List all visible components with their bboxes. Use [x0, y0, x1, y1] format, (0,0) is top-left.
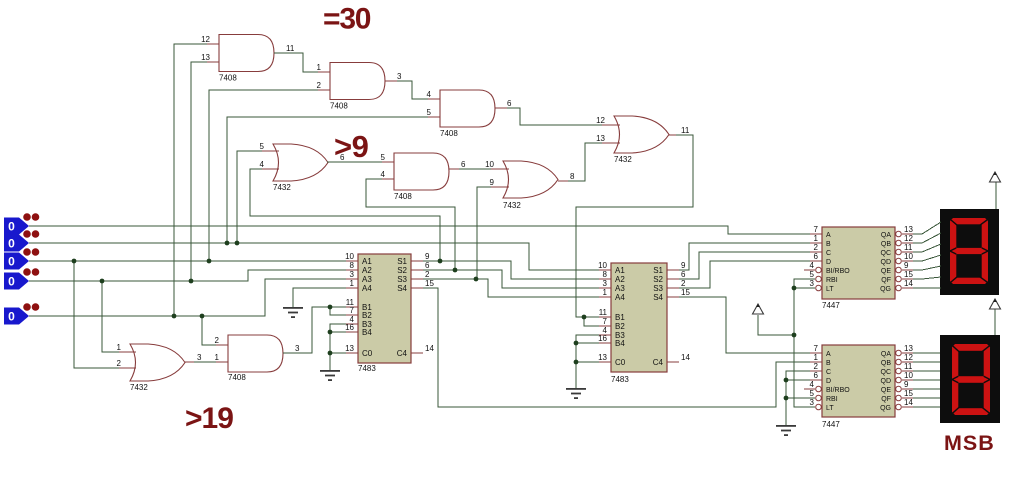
- wire U4 S2 to U5 pin C: [679, 252, 810, 279]
- svg-text:1: 1: [350, 279, 355, 288]
- svg-text:S3: S3: [653, 284, 663, 293]
- svg-text:QF: QF: [881, 277, 891, 284]
- svg-text:1: 1: [814, 353, 819, 362]
- junction J13: [328, 330, 333, 335]
- junction J7: [172, 314, 177, 319]
- svg-text:6: 6: [425, 261, 430, 270]
- svg-text:4: 4: [260, 160, 265, 169]
- svg-text:5: 5: [810, 270, 815, 279]
- svg-text:>9: >9: [334, 129, 369, 164]
- svg-text:1: 1: [814, 234, 819, 243]
- junction J4: [207, 259, 212, 264]
- svg-text:13: 13: [201, 53, 210, 62]
- svg-text:7408: 7408: [394, 192, 412, 201]
- power arrow (display DS1): [990, 172, 1001, 182]
- svg-text:11: 11: [681, 126, 690, 135]
- svg-text:7432: 7432: [503, 201, 521, 210]
- junction J1: [225, 241, 230, 246]
- svg-text:=30: =30: [323, 3, 371, 36]
- wire U3 B3/B4/C0 to ground: [330, 324, 346, 370]
- ground (U4 B/C0 chain): [566, 388, 586, 399]
- OR gate U2:A 7432 (=30 output): [596, 116, 690, 164]
- svg-text:12: 12: [904, 353, 913, 362]
- svg-text:QD: QD: [881, 378, 892, 385]
- svg-text:13: 13: [598, 353, 607, 362]
- svg-text:13: 13: [904, 344, 913, 353]
- OR gate U2:C 7432: [485, 160, 575, 210]
- svg-text:8: 8: [603, 270, 608, 279]
- input pin P1 state dots: [23, 213, 39, 221]
- svg-text:QD: QD: [881, 259, 892, 266]
- wire U3 S1 to U4 A2: [423, 261, 599, 279]
- wire rail P1 to U5 pin A: [29, 226, 810, 234]
- svg-text:C: C: [826, 250, 831, 257]
- svg-text:A: A: [826, 351, 831, 358]
- svg-text:QA: QA: [881, 232, 891, 239]
- junction J16: [574, 341, 579, 346]
- svg-text:7432: 7432: [614, 155, 632, 164]
- svg-text:3: 3: [295, 344, 300, 353]
- svg-text:7408: 7408: [330, 102, 348, 111]
- svg-text:D: D: [826, 259, 831, 266]
- wires U6 QA-QG to display DS2: [913, 353, 940, 407]
- junction J19: [792, 333, 797, 338]
- junction J17: [574, 360, 579, 365]
- wire U4 B2 branch: [584, 317, 599, 326]
- svg-text:15: 15: [904, 270, 913, 279]
- OR gate U2:D 7432 (>19): [117, 343, 202, 392]
- svg-text:A2: A2: [615, 275, 625, 284]
- junction J21: [784, 396, 789, 401]
- junction J15: [582, 315, 587, 320]
- svg-text:7: 7: [350, 306, 355, 315]
- svg-text:16: 16: [598, 334, 607, 343]
- svg-text:1: 1: [215, 353, 220, 362]
- svg-text:13: 13: [904, 225, 913, 234]
- svg-text:S2: S2: [397, 266, 407, 275]
- svg-text:6: 6: [814, 252, 819, 261]
- svg-text:QF: QF: [881, 396, 891, 403]
- svg-text:LT: LT: [826, 405, 834, 412]
- svg-text:3: 3: [197, 353, 202, 362]
- 7-segment display DS2 (MSB): [940, 335, 1000, 423]
- wire power to display DS1: [995, 181, 997, 209]
- input pin P5 state dots: [23, 303, 39, 311]
- svg-text:6: 6: [461, 160, 466, 169]
- svg-text:5: 5: [810, 389, 815, 398]
- svg-text:8: 8: [570, 172, 575, 181]
- wire U1:A out to U1:B pin 1: [274, 53, 318, 72]
- ground (U3 B/C0 chain): [320, 370, 340, 381]
- wire AND >19 pin 2 to P5 rail: [202, 316, 216, 345]
- wire U5 RBI/LT to power and U6 LT: [758, 279, 815, 407]
- wire U3 S2 to U1:D pin 4: [366, 179, 455, 270]
- svg-text:7: 7: [814, 225, 819, 234]
- BCD to 7-seg decoder U5 7447: [804, 225, 913, 310]
- 7-segment display DS1: [940, 209, 999, 295]
- svg-text:7408: 7408: [440, 129, 458, 138]
- svg-text:14: 14: [904, 279, 913, 288]
- svg-text:9: 9: [490, 178, 495, 187]
- junction J3: [72, 259, 77, 264]
- svg-text:14: 14: [425, 344, 434, 353]
- svg-text:0: 0: [8, 220, 15, 234]
- svg-text:6: 6: [507, 99, 512, 108]
- wire U3 A4 to ground: [293, 288, 346, 307]
- svg-text:9: 9: [681, 261, 686, 270]
- wire P2 rail to U2:B pin 5: [237, 151, 262, 243]
- svg-text:QB: QB: [881, 241, 891, 248]
- junction J12: [328, 305, 333, 310]
- svg-text:7408: 7408: [228, 373, 246, 382]
- svg-text:A2: A2: [362, 266, 372, 275]
- svg-text:2: 2: [117, 359, 122, 368]
- svg-text:4: 4: [810, 261, 815, 270]
- power arrow (U5/U6 LT): [753, 304, 764, 314]
- wire OR >19 pin 2 to P3 rail: [74, 261, 119, 368]
- wire rail P4 to U3 pin A2: [29, 270, 346, 281]
- svg-text:2: 2: [215, 336, 220, 345]
- svg-text:4: 4: [810, 380, 815, 389]
- svg-text:15: 15: [904, 389, 913, 398]
- svg-text:S2: S2: [653, 275, 663, 284]
- svg-text:12: 12: [596, 116, 605, 125]
- logic input pin P2 (state 0): [4, 235, 29, 252]
- svg-text:3: 3: [397, 72, 402, 81]
- input pin P3 state dots: [23, 248, 39, 256]
- svg-text:9: 9: [425, 252, 430, 261]
- wire P4 rail to U1:A pin 13: [191, 62, 207, 281]
- junction J2: [235, 241, 240, 246]
- svg-text:0: 0: [8, 310, 15, 324]
- wire U4 B3/B4/C0 to ground: [576, 335, 599, 388]
- svg-text:12: 12: [201, 35, 210, 44]
- label =30: [323, 3, 371, 36]
- svg-text:15: 15: [681, 288, 690, 297]
- OR gate U2:B 7432 (>9): [260, 142, 345, 192]
- svg-text:A4: A4: [615, 293, 625, 302]
- svg-text:A3: A3: [615, 284, 625, 293]
- svg-text:6: 6: [681, 270, 686, 279]
- svg-text:2: 2: [425, 270, 430, 279]
- svg-text:A1: A1: [362, 257, 372, 266]
- logic input pin P4 (state 0): [4, 273, 29, 290]
- wire rail P3 to U3 pin A1: [29, 260, 346, 262]
- svg-text:B2: B2: [615, 322, 625, 331]
- wire rail P2 to U4 pin A1: [29, 243, 599, 270]
- svg-text:QA: QA: [881, 351, 891, 358]
- label &gt;19: [185, 402, 233, 435]
- wire U1:C out to U2:A pin 12: [507, 108, 602, 125]
- wire U3 B2 branch: [330, 307, 346, 315]
- svg-text:7408: 7408: [219, 74, 237, 83]
- svg-text:B2: B2: [362, 311, 372, 320]
- svg-text:QG: QG: [880, 405, 891, 412]
- wire U4 S1 to U5 pin B: [679, 243, 810, 270]
- wire U3 S1 to U2:B pin 4: [250, 169, 440, 261]
- svg-text:RBI: RBI: [826, 396, 838, 403]
- wire U3 S3 to U2:C pin 9: [477, 187, 491, 279]
- svg-text:S3: S3: [397, 275, 407, 284]
- svg-text:A3: A3: [362, 275, 372, 284]
- svg-text:QG: QG: [880, 286, 891, 293]
- junction J5: [100, 279, 105, 284]
- svg-text:S1: S1: [653, 266, 663, 275]
- svg-text:2: 2: [681, 279, 686, 288]
- ground (U6 C/D/RBI chain): [776, 425, 796, 436]
- svg-text:3: 3: [810, 279, 815, 288]
- svg-text:1: 1: [603, 288, 608, 297]
- AND gate U1:B 7408: [317, 63, 402, 111]
- svg-text:2: 2: [317, 81, 322, 90]
- svg-text:C0: C0: [615, 358, 626, 367]
- svg-text:7: 7: [814, 344, 819, 353]
- svg-text:>19: >19: [185, 402, 233, 435]
- svg-text:C4: C4: [397, 349, 408, 358]
- wire U3 S4 to U6 pin B: [423, 288, 810, 407]
- 4-bit adder U3 7483: [345, 252, 434, 373]
- junction J14: [328, 351, 333, 356]
- AND gate U1:A 7408: [201, 35, 295, 83]
- wires U5 QA-QG to display DS1: [913, 222, 941, 288]
- wire U3 S2 to U4 A3: [423, 270, 599, 288]
- svg-text:2: 2: [814, 362, 819, 371]
- svg-text:MSB: MSB: [944, 431, 995, 455]
- wire U2:A out (=30) to U4 B1/B2: [576, 135, 693, 317]
- svg-text:11: 11: [904, 243, 913, 252]
- svg-text:10: 10: [598, 261, 607, 270]
- svg-text:7483: 7483: [611, 375, 629, 384]
- svg-text:7: 7: [603, 317, 608, 326]
- input pin P2 state dots: [23, 230, 39, 238]
- wire P5 rail to U1:A pin 12: [174, 44, 207, 316]
- svg-text:7447: 7447: [822, 301, 840, 310]
- svg-text:10: 10: [485, 160, 494, 169]
- svg-text:5: 5: [427, 108, 432, 117]
- input pin P4 state dots: [23, 268, 39, 276]
- svg-text:QC: QC: [881, 250, 892, 257]
- AND gate U1:D 7408 (>9): [381, 153, 466, 201]
- svg-text:10: 10: [904, 371, 913, 380]
- svg-text:A: A: [826, 232, 831, 239]
- svg-text:7432: 7432: [273, 183, 291, 192]
- junction J10: [453, 268, 458, 273]
- svg-text:0: 0: [8, 275, 15, 289]
- svg-text:RBI: RBI: [826, 277, 838, 284]
- svg-text:5: 5: [260, 142, 265, 151]
- svg-text:11: 11: [286, 44, 295, 53]
- wire U2:C out to U2:A pin 13: [568, 143, 602, 181]
- svg-text:QB: QB: [881, 360, 891, 367]
- wire U6 C/D/RBI to ground: [786, 371, 815, 425]
- label &gt;9: [334, 129, 369, 164]
- svg-text:D: D: [826, 378, 831, 385]
- wire U2:B out to U1:D pin 5: [327, 161, 382, 163]
- svg-text:QE: QE: [881, 387, 891, 394]
- svg-text:B4: B4: [615, 339, 625, 348]
- svg-text:16: 16: [345, 323, 354, 332]
- svg-text:4: 4: [427, 90, 432, 99]
- svg-text:2: 2: [814, 243, 819, 252]
- wire >19 output to U3 B1/B2: [283, 307, 346, 353]
- svg-text:14: 14: [904, 398, 913, 407]
- BCD to 7-seg decoder U6 7447: [804, 344, 913, 429]
- junction J20: [784, 378, 789, 383]
- wire U3 S3 to U4 A4: [423, 279, 599, 297]
- svg-text:10: 10: [345, 252, 354, 261]
- svg-text:8: 8: [350, 261, 355, 270]
- svg-text:5: 5: [381, 153, 386, 162]
- svg-text:A1: A1: [615, 266, 625, 275]
- svg-text:15: 15: [425, 279, 434, 288]
- svg-text:11: 11: [904, 362, 913, 371]
- svg-text:A4: A4: [362, 284, 372, 293]
- svg-text:13: 13: [345, 344, 354, 353]
- svg-text:1: 1: [117, 343, 122, 352]
- logic input pin P3 (state 0): [4, 253, 29, 270]
- power arrow (display DS2): [990, 299, 1001, 309]
- 4-bit adder U4 7483: [598, 261, 690, 384]
- junction J8: [200, 314, 205, 319]
- wire OR >19 out to AND >19 pin 1: [194, 361, 216, 363]
- svg-text:11: 11: [599, 308, 608, 317]
- svg-text:S4: S4: [653, 293, 663, 302]
- svg-text:QC: QC: [881, 369, 892, 376]
- AND gate U1:C 7408: [427, 90, 512, 138]
- wire rail P5 to U3 pin A3: [29, 279, 346, 316]
- svg-text:BI/RBO: BI/RBO: [826, 387, 850, 394]
- svg-text:9: 9: [904, 261, 909, 270]
- svg-text:B1: B1: [615, 313, 625, 322]
- svg-text:1: 1: [317, 63, 322, 72]
- wire P3 rail to U1:B pin 2: [209, 90, 318, 261]
- wire U1:D out to U2:C pin 10: [459, 168, 491, 170]
- svg-text:10: 10: [904, 252, 913, 261]
- svg-text:12: 12: [904, 234, 913, 243]
- svg-text:C: C: [826, 369, 831, 376]
- logic input pin P5 (state 0): [4, 308, 29, 325]
- svg-text:S1: S1: [397, 257, 407, 266]
- svg-text:B4: B4: [362, 328, 372, 337]
- wire power to display DS2: [994, 308, 996, 335]
- junction J18: [792, 286, 797, 291]
- svg-text:7447: 7447: [822, 420, 840, 429]
- label MSB: [944, 431, 995, 455]
- svg-text:7483: 7483: [358, 364, 376, 373]
- junction J6: [189, 279, 194, 284]
- svg-text:C4: C4: [653, 358, 664, 367]
- wire U1:B out to U1:C pin 4: [397, 81, 428, 99]
- wire P2 rail to U1:C pin 5: [227, 117, 428, 243]
- svg-text:LT: LT: [826, 286, 834, 293]
- wire OR >19 pin 1 to P4 rail: [102, 281, 119, 352]
- svg-text:S4: S4: [397, 284, 407, 293]
- svg-text:0: 0: [8, 255, 15, 269]
- junction J9: [438, 259, 443, 264]
- ground (U3 pin A4): [283, 288, 303, 318]
- svg-text:3: 3: [350, 270, 355, 279]
- svg-text:9: 9: [904, 380, 909, 389]
- svg-text:C0: C0: [362, 349, 373, 358]
- svg-text:13: 13: [596, 134, 605, 143]
- junction J11: [474, 277, 479, 282]
- svg-text:3: 3: [603, 279, 608, 288]
- svg-text:QE: QE: [881, 268, 891, 275]
- svg-text:B: B: [826, 360, 831, 367]
- wire U4 S3 to U5 pin D: [679, 261, 810, 288]
- svg-text:3: 3: [810, 398, 815, 407]
- wire U4 S4 to U6 pin A: [679, 297, 810, 353]
- svg-text:7432: 7432: [130, 383, 148, 392]
- svg-text:14: 14: [681, 353, 690, 362]
- svg-text:B: B: [826, 241, 831, 248]
- AND gate U5:A 7408 (>19): [215, 335, 300, 382]
- svg-text:4: 4: [381, 170, 386, 179]
- logic input pin P1 (state 0): [4, 218, 29, 235]
- svg-text:6: 6: [814, 371, 819, 380]
- svg-text:BI/RBO: BI/RBO: [826, 268, 850, 275]
- svg-text:0: 0: [8, 237, 15, 251]
